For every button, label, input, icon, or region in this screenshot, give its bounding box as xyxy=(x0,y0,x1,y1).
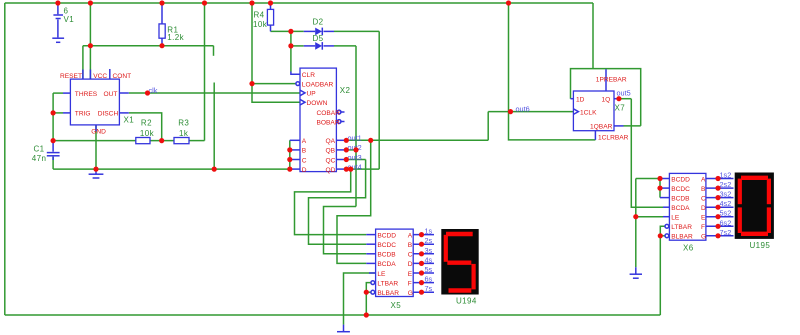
pin DISCH stub xyxy=(119,112,128,114)
wire: VCC riser to 555 VCC pin xyxy=(89,3,91,79)
wire: R3 riser to VCC rail xyxy=(204,3,206,141)
svg-text:COBAR: COBAR xyxy=(317,110,341,117)
svg-text:LE: LE xyxy=(671,215,680,222)
junction out1 branch xyxy=(368,138,373,143)
wire: left border vertical xyxy=(4,3,6,315)
svg-text:TRIG: TRIG xyxy=(75,111,91,118)
junction X5 D stub xyxy=(419,261,424,266)
node out6 wire to 1CLK xyxy=(488,111,573,113)
flip-flop X7 box xyxy=(573,91,614,131)
svg-text:B: B xyxy=(302,148,307,155)
svg-text:A: A xyxy=(302,138,307,145)
wire: TRIG lead xyxy=(53,112,63,114)
svg-text:F: F xyxy=(408,280,412,287)
X6 output stubs A-G xyxy=(706,179,734,236)
wire: D2 cathode run xyxy=(334,30,379,32)
wire: R2 left run xyxy=(53,140,135,142)
junction QA pin end xyxy=(344,138,349,143)
svg-text:BLBAR: BLBAR xyxy=(671,234,693,241)
node out2 wire xyxy=(346,149,356,151)
junction R1 bottom xyxy=(159,43,164,48)
pin LTBAR bubble xyxy=(665,224,669,228)
junction X6 A stub xyxy=(715,176,720,181)
svg-text:R2: R2 xyxy=(141,118,152,127)
junction X6 B stub xyxy=(715,186,720,191)
junction out5 node xyxy=(616,96,621,101)
pin UP arrow xyxy=(300,90,305,96)
pin QD stub xyxy=(336,168,346,170)
wire: out4 drop xyxy=(295,169,367,235)
node out5 wire from 1Q xyxy=(619,98,631,100)
pin QB stub xyxy=(336,149,346,151)
ground (X6 BCD tie) xyxy=(630,267,642,278)
svg-text:GND: GND xyxy=(91,129,106,136)
svg-text:out3: out3 xyxy=(348,153,362,162)
junction R4 top xyxy=(268,0,273,5)
svg-text:D5: D5 xyxy=(313,34,324,43)
svg-text:G: G xyxy=(408,290,413,297)
wire: LOADBAR branch xyxy=(252,83,296,85)
junction X6 C stub xyxy=(715,195,720,200)
svg-text:6s: 6s xyxy=(425,275,433,284)
wire: X7 top loop xyxy=(571,69,641,126)
svg-text:1PREBAR: 1PREBAR xyxy=(596,76,627,83)
wire: RESET riser xyxy=(82,46,84,79)
pin CONT stub xyxy=(109,69,111,79)
svg-text:THRES: THRES xyxy=(75,91,98,98)
pin COBAR bubble and stub xyxy=(337,110,344,114)
svg-text:B: B xyxy=(701,186,706,193)
junction X5 BLBAR tie xyxy=(364,290,369,295)
svg-text:BCDB: BCDB xyxy=(671,195,690,202)
svg-text:BCDB: BCDB xyxy=(377,252,396,259)
svg-text:RESET: RESET xyxy=(60,73,82,80)
svg-text:BCDD: BCDD xyxy=(377,232,396,239)
wire: D5 cathode run xyxy=(334,45,356,47)
wire: out2 drop xyxy=(324,207,367,254)
junction X5 tie / bottom rail xyxy=(364,312,369,317)
junction LOADBAR branch xyxy=(249,81,254,86)
junction D5 anode xyxy=(288,43,293,48)
svg-text:LOADBAR: LOADBAR xyxy=(302,81,334,88)
wire: VCC drop to LOADBAR/DOWN xyxy=(252,3,300,102)
diode D5 xyxy=(304,42,334,50)
node out3 wire xyxy=(346,159,365,161)
junction VCC drop top xyxy=(249,0,254,5)
svg-text:BCDA: BCDA xyxy=(377,261,396,268)
svg-text:C: C xyxy=(701,195,706,202)
junction dangling vertical / rail xyxy=(212,167,217,172)
junction X6 BCDD xyxy=(657,176,662,181)
segment E xyxy=(738,207,742,233)
svg-text:out1: out1 xyxy=(348,134,362,143)
svg-text:B: B xyxy=(408,242,413,249)
pin B stub xyxy=(290,149,300,151)
wire: X6 BCD tie vertical xyxy=(659,179,661,198)
junction X2 C pin xyxy=(287,157,292,162)
node out1 wire xyxy=(346,139,488,141)
svg-text:1k: 1k xyxy=(179,129,189,138)
pin BCDC stub xyxy=(660,187,669,189)
X5 output stubs A-G xyxy=(413,235,434,293)
svg-text:10k: 10k xyxy=(140,129,155,138)
svg-text:R4: R4 xyxy=(254,11,265,20)
wire: out5 drop to X6 BCDA xyxy=(631,99,663,208)
svg-text:E: E xyxy=(701,215,706,222)
svg-text:C1: C1 xyxy=(34,145,45,154)
svg-text:3s: 3s xyxy=(425,246,433,255)
junction D2 anode xyxy=(288,29,293,34)
pin 1PREBAR stub xyxy=(605,69,607,91)
svg-text:BCDD: BCDD xyxy=(671,176,690,183)
junction X2 D pin xyxy=(287,167,292,172)
svg-text:LTBAR: LTBAR xyxy=(377,280,398,287)
segment F xyxy=(738,179,742,205)
svg-text:5s: 5s xyxy=(425,265,433,274)
svg-text:E: E xyxy=(408,271,413,278)
junction out4 branch xyxy=(348,167,353,172)
wire: X5 BLBAR stub xyxy=(366,291,371,293)
junction QC pin end xyxy=(344,157,349,162)
svg-text:47n: 47n xyxy=(32,154,47,163)
svg-text:G: G xyxy=(701,234,706,241)
pin OUT stub xyxy=(119,92,128,94)
pin VCC stub xyxy=(89,70,91,80)
junction VCC riser / RESET net xyxy=(88,43,93,48)
svg-text:CONT: CONT xyxy=(113,73,132,80)
pin BLBAR bubble xyxy=(665,234,669,238)
wire: X6 ground vertical xyxy=(635,179,637,268)
svg-text:X7: X7 xyxy=(615,104,626,113)
junction X5 G stub xyxy=(419,290,424,295)
junction X5 E stub xyxy=(419,270,424,275)
wire: out3 drop xyxy=(309,160,367,245)
diode D2 xyxy=(304,28,334,36)
segment D xyxy=(449,288,472,292)
wire: X5 LTBAR/BLBAR tie to rail xyxy=(366,283,371,315)
svg-text:1.2k: 1.2k xyxy=(167,33,184,42)
wire: VCC riser to X7 loop xyxy=(592,3,594,69)
capacitor C1 xyxy=(47,141,60,160)
pin DOWN arrow xyxy=(300,99,305,105)
wire: R4 bottom run to diodes xyxy=(271,30,304,32)
wire: dangling vertical to ground rail xyxy=(213,83,215,170)
wire: VCC drop to 1CLRBAR xyxy=(509,3,596,140)
junction X6 BLBAR tie xyxy=(658,233,663,238)
wire: out1 riser to out6 xyxy=(487,112,489,141)
pin LE stub xyxy=(369,272,376,274)
pin 1Q stub xyxy=(614,98,619,100)
svg-text:V1: V1 xyxy=(64,15,75,24)
junction out2 / D5 xyxy=(353,147,358,152)
wire: out1 drop xyxy=(337,140,371,263)
junction X5 C stub xyxy=(419,251,424,256)
pin BCDB stub xyxy=(366,253,375,255)
decoder X6 box xyxy=(669,173,706,240)
node out4 wire xyxy=(346,168,379,170)
wire: stub below RESET net corner xyxy=(213,46,215,56)
svg-text:6s2: 6s2 xyxy=(720,218,732,227)
segment F xyxy=(444,235,448,262)
svg-text:LE: LE xyxy=(377,271,386,278)
svg-text:4s2: 4s2 xyxy=(720,199,732,208)
battery V1 xyxy=(52,3,64,42)
wire: X6 BCD tie horizontal xyxy=(636,178,660,180)
wire: X6 LTBAR/BLBAR tie to rail xyxy=(660,226,665,315)
svg-text:2s2: 2s2 xyxy=(720,180,732,189)
svg-text:BCDC: BCDC xyxy=(671,186,690,193)
junction X5 B stub xyxy=(419,242,424,247)
pin QA stub xyxy=(336,139,346,141)
svg-text:D: D xyxy=(701,205,706,212)
segment C xyxy=(767,207,771,233)
pin LOADBAR bubble xyxy=(296,82,300,86)
svg-text:C: C xyxy=(302,157,307,164)
junction QB pin end xyxy=(344,147,349,152)
svg-text:VCC: VCC xyxy=(93,73,107,80)
wire: THRES lead xyxy=(53,92,63,94)
junction X6 LE xyxy=(633,214,638,219)
svg-text:QA: QA xyxy=(326,138,336,145)
pin LTBAR bubble xyxy=(371,281,375,285)
svg-text:X5: X5 xyxy=(391,301,402,310)
resistor R4 xyxy=(267,3,273,31)
svg-text:X2: X2 xyxy=(340,86,351,95)
junction out6 node xyxy=(508,109,513,114)
wire: OUT / clk run to X2 UP xyxy=(129,92,300,94)
svg-text:1D: 1D xyxy=(576,97,585,104)
svg-text:A: A xyxy=(701,176,706,183)
wire: X5 LE to ground xyxy=(344,273,376,325)
wire: diode feed vertical / CLR riser xyxy=(290,31,292,71)
pin A stub xyxy=(290,139,300,141)
wire: ground rail of 555 / X2 D row xyxy=(53,168,290,170)
junction X7 VCC drop top xyxy=(506,0,511,5)
counter X2 box xyxy=(300,68,336,172)
junction X5 A stub xyxy=(419,232,424,237)
wire: D5 anode lead xyxy=(291,45,304,47)
junction X6 D stub xyxy=(715,205,720,210)
wire: R3 right run xyxy=(189,140,204,142)
junction QD pin end xyxy=(344,167,349,172)
ground (555 GND) xyxy=(89,169,104,178)
pin BOBAR bubble and stub xyxy=(337,120,344,124)
pin THRES stub xyxy=(63,92,70,94)
resistor R2 xyxy=(136,138,151,144)
wire: 555 GND pin drop xyxy=(95,125,97,169)
junction X2 B pin xyxy=(287,147,292,152)
junction X6 F stub xyxy=(715,224,720,229)
junction R1 top xyxy=(159,0,164,5)
svg-text:BCDA: BCDA xyxy=(671,205,690,212)
wire: X6 BLBAR stub xyxy=(660,235,665,237)
pin CLR lead xyxy=(291,72,300,75)
svg-text:BCDC: BCDC xyxy=(377,242,396,249)
resistor R1 xyxy=(159,3,165,46)
junction R2-R3 / DISCH xyxy=(159,138,164,143)
svg-text:R3: R3 xyxy=(178,118,189,127)
svg-text:A: A xyxy=(408,232,413,239)
resistor R3 xyxy=(174,138,189,144)
pin LE stub xyxy=(663,216,669,218)
svg-text:10k: 10k xyxy=(253,20,268,29)
junction TRIG xyxy=(51,110,56,115)
pin D stub xyxy=(290,168,300,170)
svg-text:OUT: OUT xyxy=(104,91,118,98)
svg-text:U195: U195 xyxy=(750,241,771,250)
svg-text:DOWN: DOWN xyxy=(307,100,328,107)
wire: THRES/TRIG/C1 vertical xyxy=(52,93,54,141)
pin GND stub xyxy=(95,125,97,132)
svg-text:out6: out6 xyxy=(516,105,530,114)
wire: DISCH run xyxy=(129,113,162,141)
wire: D2 drop to out4 xyxy=(378,31,380,169)
junction V1 top xyxy=(55,0,60,5)
pin BLBAR bubble xyxy=(371,290,375,294)
wire: bottom ground rail xyxy=(5,314,661,316)
svg-text:U194: U194 xyxy=(456,297,477,306)
svg-text:QD: QD xyxy=(326,167,336,174)
junction X6 G stub xyxy=(715,233,720,238)
svg-text:BOBAR: BOBAR xyxy=(317,119,340,126)
svg-text:QB: QB xyxy=(326,148,336,155)
svg-text:2s: 2s xyxy=(425,236,433,245)
svg-text:LTBAR: LTBAR xyxy=(671,224,692,231)
svg-text:1CLK: 1CLK xyxy=(580,109,597,116)
svg-text:out5: out5 xyxy=(617,88,631,97)
junction X6 E stub xyxy=(715,214,720,219)
svg-text:BLBAR: BLBAR xyxy=(377,290,399,297)
wire: D5 drop joining out2 xyxy=(355,46,357,207)
pin 1QBAR stub xyxy=(614,125,624,127)
svg-text:5s2: 5s2 xyxy=(720,209,732,218)
svg-text:4s: 4s xyxy=(425,255,433,264)
svg-text:3s2: 3s2 xyxy=(720,190,732,199)
ground (X5 LE) xyxy=(337,325,350,332)
wire: 1QBAR link xyxy=(624,125,641,127)
svg-text:F: F xyxy=(701,224,705,231)
junction GND pin / rail xyxy=(93,167,98,172)
pin BCDC stub xyxy=(366,243,375,245)
pin BCDD stub xyxy=(366,234,375,236)
junction VCC riser top xyxy=(88,0,93,5)
svg-text:CLR: CLR xyxy=(302,72,315,79)
segment C xyxy=(472,264,476,290)
svg-text:D2: D2 xyxy=(313,18,324,27)
segment G xyxy=(447,261,471,265)
svg-text:X1: X1 xyxy=(124,115,135,124)
segment B xyxy=(767,179,771,205)
seven-segment display U194 xyxy=(441,229,478,295)
wire: RESET net horizontal xyxy=(83,45,214,47)
segment A xyxy=(446,232,473,236)
wire: R2-R3 link xyxy=(150,140,174,142)
pin BCDD stub xyxy=(660,178,669,180)
pin RESET stub xyxy=(82,70,84,80)
svg-text:UP: UP xyxy=(307,91,317,98)
junction R3 riser top xyxy=(202,0,207,5)
pin BCDA stub xyxy=(663,206,669,208)
svg-text:1Q: 1Q xyxy=(602,97,611,104)
svg-text:DISCH: DISCH xyxy=(98,111,119,118)
pin C stub xyxy=(290,159,300,161)
svg-text:1QBAR: 1QBAR xyxy=(590,124,613,131)
wire: C1 bottom drop xyxy=(52,157,54,169)
wire: X6 LE run xyxy=(636,216,663,218)
svg-text:7s2: 7s2 xyxy=(720,228,732,237)
junction C1 top / R2 xyxy=(51,138,56,143)
pin QC stub xyxy=(336,159,346,161)
svg-text:C: C xyxy=(408,252,413,259)
svg-text:7s: 7s xyxy=(425,284,433,293)
svg-text:1s2: 1s2 xyxy=(720,171,732,180)
pin BCDA stub xyxy=(366,262,375,264)
svg-text:X6: X6 xyxy=(683,243,694,252)
wire: X2 ABCD tie vertical xyxy=(289,140,291,169)
pin 1D stub xyxy=(571,98,574,100)
decoder X5 box xyxy=(376,229,414,296)
junction X5 F stub xyxy=(419,280,424,285)
pin 1CLK arrow xyxy=(573,109,578,115)
segment D xyxy=(741,232,768,236)
seven-segment display U195 xyxy=(735,173,774,239)
pin BCDB stub xyxy=(660,197,669,199)
segment A xyxy=(741,176,768,180)
svg-text:1CLRBAR: 1CLRBAR xyxy=(598,134,629,141)
junction clk node xyxy=(145,90,150,95)
svg-text:D: D xyxy=(408,261,413,268)
junction X6 BCDC xyxy=(657,186,662,191)
pin TRIG stub xyxy=(63,112,70,114)
svg-text:QC: QC xyxy=(326,157,336,164)
timer X1 (555 astable) box xyxy=(70,79,119,125)
pin 1CLRBAR stub xyxy=(594,131,596,140)
svg-text:1s: 1s xyxy=(425,227,433,236)
svg-text:D: D xyxy=(302,167,307,174)
wire: top VCC rail xyxy=(5,2,593,4)
